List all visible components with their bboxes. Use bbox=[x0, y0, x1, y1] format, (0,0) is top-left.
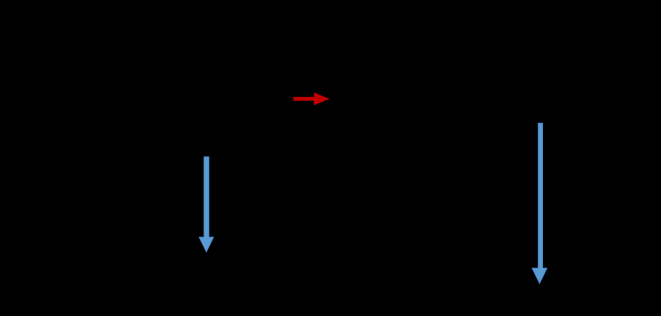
blue down arrow (left, short) bbox=[199, 157, 214, 252]
blue down arrow (right, long) bbox=[532, 123, 547, 283]
red reaction arrow (rightward) bbox=[293, 93, 329, 106]
